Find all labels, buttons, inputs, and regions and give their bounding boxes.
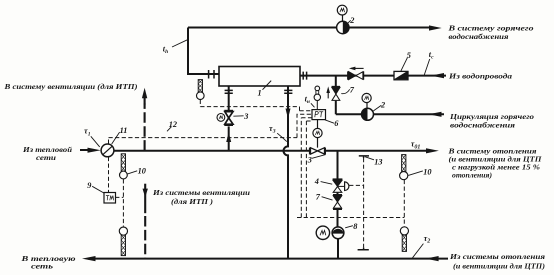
dashed t-sensor line to PT (200, 100, 312, 111)
wire: mixing pump branch (337, 151, 340, 259)
dashed impulse line 12 (109, 100, 405, 248)
svg-text:7: 7 (350, 85, 355, 94)
wire: inlet from heating network with arrow (80, 149, 88, 151)
svg-text:водоснабжения: водоснабжения (450, 121, 515, 130)
pump 2 circulation (362, 108, 374, 120)
svg-text:7: 7 (316, 192, 321, 201)
pressure tap T-bar top (line 13) (359, 156, 369, 158)
svg-text:10: 10 (138, 167, 146, 176)
label 4 leader (321, 182, 333, 185)
motor M of circulation pump (362, 93, 371, 102)
flange HX right (303, 72, 306, 80)
svg-text:13: 13 (374, 158, 382, 167)
dashed line 13 vertical (363, 158, 365, 248)
svg-text:10: 10 (423, 167, 431, 176)
flange HX left (209, 70, 214, 79)
arrow from heating system (bottom right, leftward) (425, 256, 438, 261)
pressure tap T-bar bottom (358, 248, 369, 250)
label 10 right leader (408, 171, 423, 176)
svg-text:сети: сети (36, 153, 56, 162)
pump 2 on top line (337, 21, 349, 33)
thermometer 10 left on supply (120, 154, 128, 179)
label 3 left leader (233, 115, 243, 117)
label tau1 leader (91, 136, 100, 147)
svg-text:3: 3 (243, 112, 248, 121)
arrow circulation (leftward) (429, 112, 442, 117)
svg-text:Из водопровода: Из водопровода (448, 71, 513, 80)
motor M of pump 2 top (337, 5, 347, 15)
pump 8 (mixing pump) (332, 227, 344, 239)
svg-text:Из системы вентиляции: Из системы вентиляции (152, 188, 250, 197)
svg-text:(и вентиляции для ЦТП): (и вентиляции для ЦТП) (453, 261, 545, 270)
dashed impulse verticals below PT (301, 118, 312, 218)
label 7 bottom leader (322, 197, 333, 200)
dashed valve 4 impulse stub (349, 184, 363, 186)
svg-text:tн: tн (305, 94, 310, 105)
sensor t_n thermometer above PT (314, 94, 320, 100)
svg-text:τ2: τ2 (424, 234, 431, 245)
motor M of right valve 3 (313, 128, 322, 137)
valve 3 right (control valve with motor, on heating line) (310, 148, 326, 155)
check valve 7 horizontal on cold line (348, 71, 364, 79)
svg-text:τ1: τ1 (84, 127, 91, 138)
flange HX bottom-right (284, 90, 292, 93)
label 10 left leader (128, 171, 138, 174)
svg-text:τ01: τ01 (411, 140, 421, 151)
svg-text:3: 3 (307, 155, 312, 164)
thermometer sensor at HX outlet (197, 80, 205, 100)
svg-text:отопления): отопления) (452, 170, 492, 179)
flow meter 11 (elevator circle) (101, 144, 114, 157)
label 7 top leader (341, 89, 349, 93)
valve 3 left (control valve with motor) (224, 110, 233, 112)
wire: HX hot branch riser (valve 3 branch) (228, 86, 230, 151)
flange HX bottom-left (225, 90, 233, 93)
arrow up into valve 3 branch (226, 133, 231, 142)
svg-text:В систему вентиляции (для: В систему вентиляции (для ИТП) (3, 82, 137, 91)
wire: heating network return line (88, 258, 448, 260)
svg-text:11: 11 (120, 126, 128, 135)
arrow to heating network (bottom left) (82, 256, 96, 261)
flow arrow up beside check valve (327, 91, 329, 99)
wire: heating supply line (114, 150, 427, 152)
valve 4 (pressure regulator) (333, 178, 343, 180)
svg-text:сеть: сеть (31, 262, 54, 271)
wire: drop from cold line to circulation line (335, 76, 337, 115)
dashed thermometer to TM and lower thermometer (115, 179, 123, 226)
vent return line (long dash) with down arrow (144, 184, 146, 214)
label tau2 leader (413, 244, 424, 258)
vent supply line (long dash) with up arrow (144, 104, 146, 151)
arrow to heating system (426, 148, 439, 153)
motor M of left valve 3 (217, 114, 225, 122)
wire: riser from HX left to top line (188, 28, 219, 75)
greek/temperature labels (84, 45, 434, 245)
motor M of pump 8 (316, 226, 329, 239)
wire: top hot-water supply line (188, 27, 430, 29)
dashed flow meter to TM (108, 157, 110, 193)
svg-text:9: 9 (87, 181, 91, 190)
label 8 leader (345, 226, 353, 228)
dashed thermometer impulse right (403, 180, 405, 226)
dashed riser x297 to PT (297, 114, 312, 137)
svg-text:th: th (163, 45, 168, 56)
svg-text:12: 12 (169, 120, 177, 129)
svg-text:4: 4 (314, 177, 319, 186)
label 2 circ leader (373, 105, 381, 111)
svg-text:6: 6 (334, 119, 339, 128)
svg-text:2: 2 (380, 101, 385, 110)
arrow down on HX return (286, 109, 291, 119)
label 13 leader (365, 157, 374, 160)
wire: cold water line from right (300, 75, 446, 77)
label 6 leader (325, 120, 334, 123)
label 3 right leader (312, 155, 326, 159)
arrow to hot water system (429, 25, 442, 30)
label 1 leader (263, 81, 272, 90)
water meter 5 (orifice) (394, 71, 408, 79)
svg-text:(для ИТП ): (для ИТП ) (171, 197, 213, 206)
label 12 leader (167, 127, 171, 132)
arrow from water supply (leftward) (431, 73, 444, 78)
flow arrow left above check valve (351, 67, 364, 69)
label t_n leader (311, 103, 315, 107)
svg-text:водоснабжения: водоснабжения (449, 32, 509, 41)
svg-text:8: 8 (353, 222, 358, 231)
svg-text:τ3: τ3 (269, 124, 276, 135)
check valve 7 vertical on circulation riser (332, 86, 340, 88)
svg-text:Из системы отопления: Из системы отопления (449, 252, 546, 261)
label 5 leader (401, 58, 408, 71)
wire: circulation line (336, 113, 444, 115)
wire: HX return downcomer with hop over supply line (284, 86, 289, 259)
heat meter TM box 9 (104, 193, 116, 204)
label 2 top leader (348, 20, 351, 23)
svg-text:2: 2 (349, 16, 354, 25)
label 9 leader (92, 186, 104, 193)
label t_c leader (424, 59, 430, 75)
regulator PT box 6 (312, 110, 326, 120)
label 11 leader (112, 132, 120, 144)
svg-text:tc: tc (429, 50, 434, 61)
thermometer 10 right on supply (400, 155, 408, 180)
thermometer on return (bottom right) (400, 227, 408, 252)
heat exchanger U1 (219, 67, 300, 87)
thermometer on return (bottom left) (119, 227, 127, 256)
svg-text:5: 5 (407, 51, 411, 60)
label t_h leader (172, 40, 188, 47)
dashed bottom impulse header (297, 217, 404, 219)
component number labels (87, 16, 431, 231)
check valve 7 bottom (on mixing branch) (333, 194, 342, 196)
label tau3 leader (277, 133, 287, 141)
svg-text:1: 1 (258, 89, 262, 98)
